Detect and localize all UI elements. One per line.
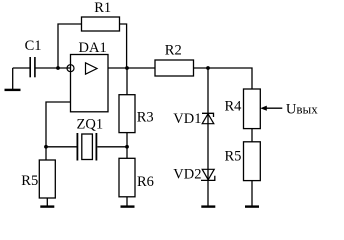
- wire: C1 right plate to DA1 inverting input bubble: [36, 67, 71, 69]
- wire: crystal right node down to R6: [126, 147, 128, 159]
- wire: R5 right to ground: [251, 181, 253, 206]
- wire: R6 to ground: [126, 197, 128, 206]
- diode VD2 (zener): [173, 166, 215, 182]
- diode VD1 (zener): [173, 111, 214, 127]
- svg-text:R5: R5: [21, 173, 38, 189]
- wire: zener branch vertical: [207, 68, 209, 206]
- wire: R4 to R5 (right): [251, 129, 253, 142]
- ground (under R6): [121, 205, 135, 207]
- resistor R6: [119, 158, 154, 197]
- ground (under left R5): [40, 205, 54, 207]
- resistor R3: [119, 95, 154, 133]
- ground (under right R5): [245, 205, 259, 207]
- capacitor C1: [25, 38, 42, 77]
- svg-text:DA1: DA1: [79, 40, 107, 56]
- resistor R4 (with output tap): [225, 89, 261, 129]
- wire: R2 to R4 branch corner: [194, 68, 253, 89]
- resistor R2: [155, 43, 194, 76]
- svg-text:R2: R2: [165, 43, 182, 59]
- crystal ZQ1: [77, 117, 104, 161]
- svg-text:R3: R3: [137, 110, 154, 126]
- resistor R1: [82, 0, 120, 31]
- svg-text:C1: C1: [25, 38, 42, 54]
- svg-text:Uвых: Uвых: [286, 101, 318, 117]
- wire: output node down to R3: [126, 68, 128, 95]
- svg-text:R1: R1: [94, 0, 111, 16]
- svg-text:R5: R5: [225, 149, 242, 165]
- arrow: Uvyh tap into R4: [260, 106, 282, 111]
- svg-text:ZQ1: ZQ1: [77, 117, 104, 133]
- wire: DA1 non-inverting input to crystal node: [46, 102, 71, 145]
- wire: R3 down to crystal right node: [126, 133, 128, 147]
- wire: DA1 output to R2: [108, 67, 155, 69]
- resistor R5 (right divider): [225, 142, 261, 181]
- node: zener branch junction: [206, 66, 210, 70]
- svg-text:VD1: VD1: [173, 111, 201, 127]
- wire: feedback riser right (R1 down to output node): [120, 24, 127, 68]
- wire: feedback riser left (input node up to R1): [58, 24, 82, 68]
- svg-text:VD2: VD2: [173, 166, 201, 182]
- node: crystal left junction: [44, 145, 48, 149]
- wire: ZQ1 to crystal right node: [97, 146, 127, 148]
- svg-text:R4: R4: [225, 99, 243, 115]
- ground (under VD2): [201, 205, 215, 207]
- ground (left, input): [5, 68, 21, 91]
- resistor R5 (left): [21, 160, 55, 198]
- wire: left R5 to ground: [46, 198, 48, 206]
- wire: input row from left ground riser to C1 left plate: [13, 67, 30, 69]
- wire: crystal left node to ZQ1: [46, 146, 77, 148]
- op-amp U1 (DA1): [67, 40, 108, 112]
- wire: crystal left node down to R5: [45, 147, 47, 160]
- node label Uvyh: [286, 101, 318, 117]
- node: output junction: [125, 66, 129, 70]
- node: inverting input junction: [56, 66, 60, 70]
- node: crystal right junction: [125, 145, 129, 149]
- svg-text:R6: R6: [137, 174, 154, 190]
